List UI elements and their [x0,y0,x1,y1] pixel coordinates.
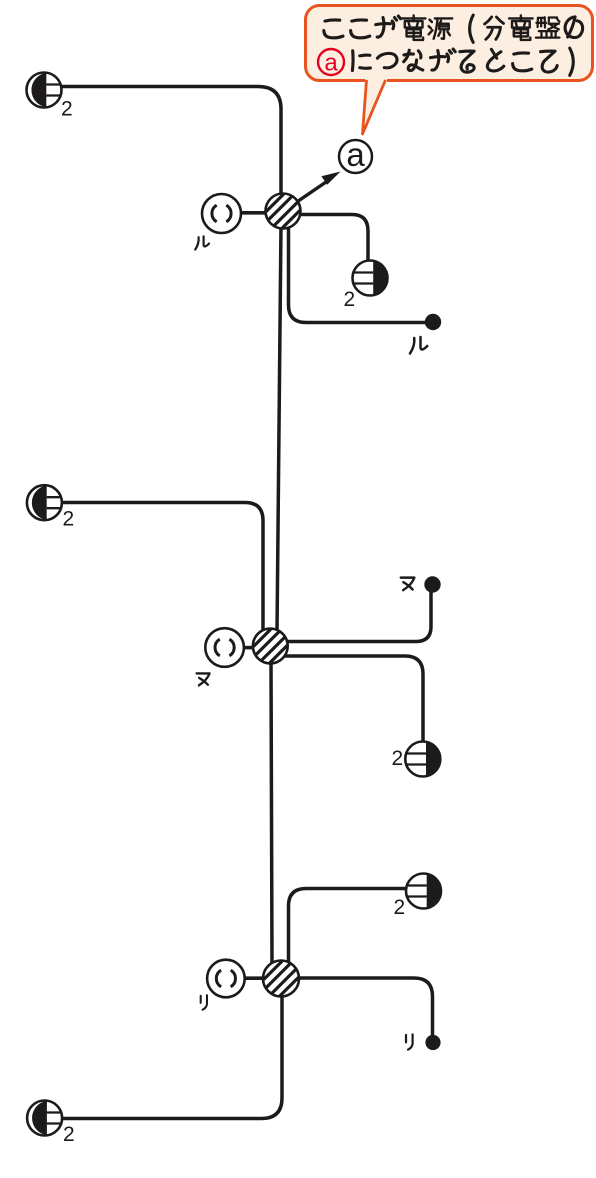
lamp receptacle NU [205,628,244,667]
junction box J1 [266,194,301,229]
lamp receptacle RU [202,194,241,233]
label RU (lamp) [195,236,209,249]
svg-text:2: 2 [61,98,73,121]
switch dot RU [425,314,441,330]
outlet O1 top-left [27,73,62,108]
connector lamp RI to box3 [244,976,266,980]
connector lamp NU to box2 [243,646,255,650]
wire from outlet mid-left to box2 [62,503,263,634]
svg-text:2: 2 [63,1123,75,1146]
wire main run box2 to box3 [271,661,272,963]
outlet O5 lower-right [406,874,441,909]
svg-text:2: 2 [394,896,406,919]
svg-text:2: 2 [392,747,404,770]
label RU (switch) [410,337,427,354]
wire from box3 to switch RI [297,978,433,1037]
svg-text:a: a [346,136,365,173]
label NU (lamp) [197,673,210,685]
wire from junction box 1 to outlet right [298,215,368,264]
svg-text:a: a [324,50,338,77]
outlet O4 mid-right [405,742,440,777]
callout text line 2 [318,49,344,75]
outlet O2 upper-right [353,261,388,296]
label NU (switch) [401,578,415,591]
label RI (switch) [406,1034,413,1049]
wire from box2 to switch NU [284,590,431,642]
label RI (lamp) [201,995,207,1009]
wire from box2 to outlet lower-right [284,656,423,744]
callout balloon [306,6,593,81]
junction box J3 [263,961,299,997]
connector lamp RU to box1 [240,211,267,215]
arrow from box1 to source point a [296,180,329,203]
wire main run box1 to box2 [277,225,281,632]
switch dot NU [424,576,440,592]
outlet O3 mid-left [27,485,62,520]
wire from box1 down to switch RU [289,225,428,323]
svg-text:2: 2 [344,288,356,311]
wire from box3 down to outlet bottom-left [63,994,282,1119]
switch dot RI [425,1035,440,1050]
wire from box3 up to outlet right [289,889,409,967]
callout text line 1 [324,20,343,38]
svg-text:2: 2 [63,508,75,531]
source node a [339,140,372,173]
lamp receptacle RI [207,960,245,998]
junction box J2 [253,629,288,664]
outlet O6 bottom-left [27,1101,62,1136]
wire from outlet top-left to junction box 1 [62,87,281,197]
